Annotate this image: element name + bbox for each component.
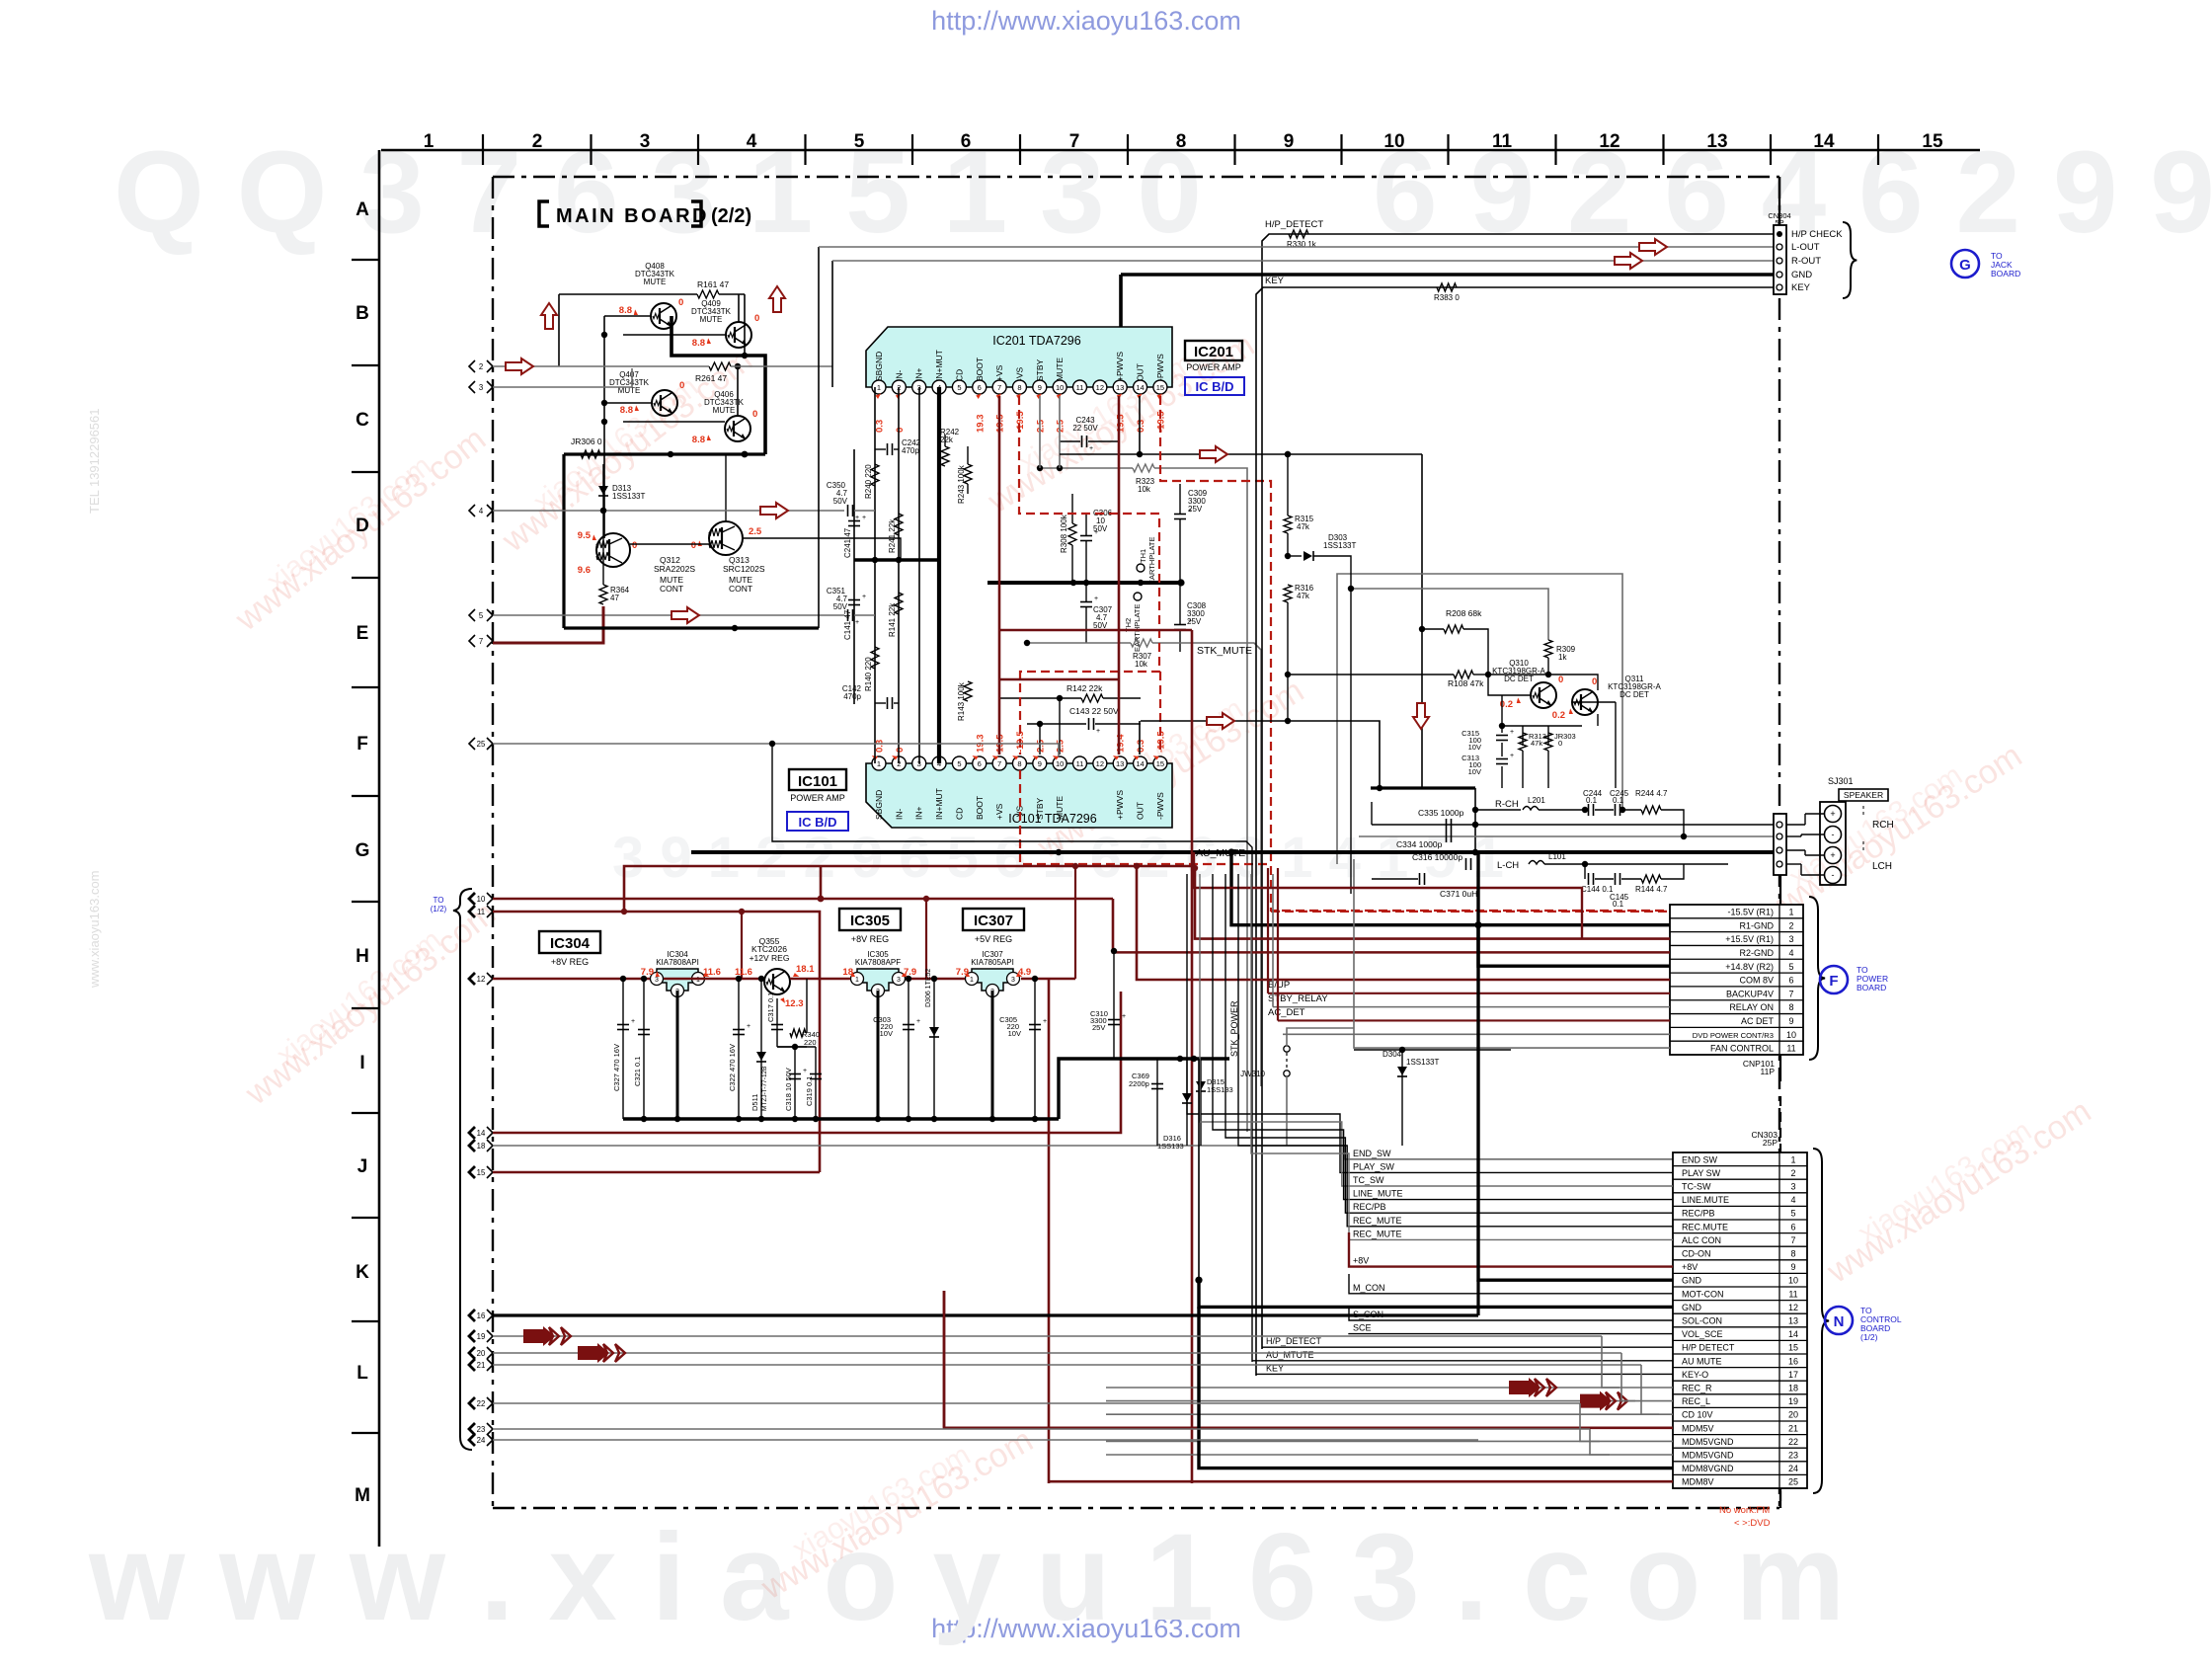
svg-text:M_CON: M_CON — [1353, 1283, 1385, 1293]
svg-text:13: 13 — [1788, 1316, 1798, 1326]
wire RELAY ON row8 — [1273, 1006, 1670, 1008]
svg-text:5: 5 — [854, 131, 865, 152]
resistor R383 0 — [1434, 283, 1460, 302]
svg-text:D511: D511 — [750, 1094, 759, 1111]
svg-text:MDM5V: MDM5V — [1682, 1423, 1714, 1433]
svg-text:15: 15 — [1922, 131, 1943, 152]
capacitor C308 3300 25V — [1174, 583, 1207, 652]
connector <3> + wire — [469, 381, 475, 393]
svg-text:1: 1 — [877, 383, 881, 392]
svg-text:C: C — [355, 410, 369, 431]
svg-text:KEY: KEY — [1791, 282, 1811, 293]
svg-text:1: 1 — [1790, 1154, 1795, 1164]
svg-text:http://www.xiaoyu163.com: http://www.xiaoyu163.com — [931, 6, 1241, 36]
svg-text:C317 0.1: C317 0.1 — [766, 993, 775, 1022]
label box IC305 — [839, 909, 901, 944]
svg-text:+VS: +VS — [994, 364, 1004, 381]
connector <25> + wire — [469, 738, 475, 750]
op-amp IC101 TDA7296 block — [866, 756, 1172, 828]
svg-text:4: 4 — [1790, 1195, 1795, 1205]
connector <14> + dark red wire — [469, 1127, 475, 1139]
svg-text:IN+: IN+ — [914, 368, 924, 382]
svg-text:BACKUP4V: BACKUP4V — [1726, 989, 1774, 998]
svg-text:(1/2): (1/2) — [431, 905, 447, 913]
svg-text:IN-: IN- — [894, 809, 904, 821]
op-amp IC201 TDA7296 block — [866, 327, 1172, 394]
svg-text:0.2: 0.2 — [1552, 710, 1565, 721]
svg-text:2.5: 2.5 — [1035, 739, 1046, 753]
svg-text:8: 8 — [1176, 131, 1187, 152]
brace to jack board — [1843, 222, 1856, 298]
svg-text:7: 7 — [1790, 1235, 1795, 1245]
svg-text:R1-GND: R1-GND — [1739, 920, 1774, 930]
capacitor C303 220 10V — [873, 976, 920, 1119]
wire Q312-Q313 link — [630, 543, 709, 545]
svg-text:IC B/D: IC B/D — [1196, 379, 1234, 394]
connector <15> + dark red wire — [469, 1166, 475, 1178]
svg-text:18: 18 — [477, 1142, 486, 1151]
svg-text:10k: 10k — [1135, 660, 1148, 669]
node G circle TO JACK BOARD — [1951, 250, 2020, 278]
dark red +VS vertical IC201 pin7 — [998, 396, 1001, 679]
svg-text:AC DET: AC DET — [1741, 1016, 1775, 1026]
capacitor C143 22 50V — [1027, 706, 1141, 735]
svg-text:25: 25 — [477, 740, 486, 749]
svg-text:47k: 47k — [1531, 739, 1542, 748]
svg-text:0: 0 — [895, 428, 906, 433]
svg-text:MUTE: MUTE — [644, 278, 667, 286]
svg-text:TC_SW: TC_SW — [1353, 1175, 1384, 1185]
resistor R313 47k — [1519, 732, 1546, 788]
svg-text:REC/PB: REC/PB — [1353, 1202, 1386, 1212]
svg-text:2: 2 — [1788, 920, 1793, 930]
svg-text:DC DET: DC DET — [1619, 690, 1649, 699]
capacitor C334 1000p — [1396, 831, 1452, 849]
svg-text:0: 0 — [632, 540, 637, 551]
svg-text:CD: CD — [954, 369, 964, 381]
wire pin3 column vertical — [918, 387, 920, 763]
thick net Q409 collector — [671, 316, 765, 454]
svg-text:+VS: +VS — [994, 803, 1004, 820]
label box IC307 — [963, 909, 1024, 944]
transistor Q407 DTC343TK — [609, 370, 684, 416]
diode D511 MTZJ-T-77-12B — [750, 976, 768, 1119]
svg-text:10V: 10V — [1008, 1029, 1021, 1038]
transistor Q310 KTC3198GR-A DC DET — [1492, 659, 1563, 710]
wire upper mid horizontal to right (arrow) — [1060, 453, 1422, 455]
svg-text:2: 2 — [532, 131, 543, 152]
grid ruler top line — [381, 149, 1980, 152]
svg-text:2200p: 2200p — [1129, 1079, 1149, 1088]
svg-text:MUTE: MUTE — [700, 315, 723, 324]
grid column ticks — [482, 134, 484, 165]
dark red riser bus to IC307 output rail — [1074, 866, 1076, 979]
dark red vertical x1207 — [1191, 630, 1194, 1483]
svg-text:MTZJ-T-77-12B: MTZJ-T-77-12B — [761, 1066, 768, 1111]
svg-text:6: 6 — [961, 131, 972, 152]
svg-text:-: - — [1832, 830, 1835, 839]
svg-text:7: 7 — [1788, 989, 1793, 998]
svg-text:G: G — [1959, 257, 1971, 274]
svg-text:14: 14 — [1813, 131, 1835, 152]
svg-text:E: E — [356, 623, 369, 644]
label box IC101 — [787, 769, 848, 831]
resistor R316 47k — [1284, 584, 1314, 721]
svg-text:R161 47: R161 47 — [697, 279, 729, 289]
jumper JW310 — [1240, 1028, 1354, 1146]
svg-text:3: 3 — [655, 977, 659, 984]
capacitor C315 100 10V — [1461, 726, 1514, 752]
regulator IC307 pin2 ground — [991, 991, 994, 1119]
svg-text:AU_MTUTE: AU_MTUTE — [1266, 1350, 1314, 1360]
dark red +PWVS vertical pin13 both ICs — [1118, 396, 1121, 755]
title MAIN BOARD — [539, 201, 751, 227]
wire COM 8V row6 from riser x1151 — [1137, 866, 1670, 980]
board border top dash-dot — [493, 176, 1779, 178]
svg-text:IC304: IC304 — [550, 935, 591, 952]
svg-text:EARTHPLATE: EARTHPLATE — [1147, 537, 1156, 586]
svg-text:0: 0 — [678, 297, 683, 308]
grid left line — [378, 150, 381, 1547]
label box IC304 — [539, 931, 600, 967]
dark red vertical pin7 IC101 — [998, 679, 1001, 755]
svg-text:REC_MUTE: REC_MUTE — [1353, 1229, 1402, 1238]
svg-text:K: K — [355, 1262, 369, 1283]
svg-text:47k: 47k — [1297, 592, 1310, 600]
svg-text:KIA7805API: KIA7805API — [971, 958, 1014, 967]
dark red horizontal y638 — [999, 629, 1192, 632]
svg-text:KIA7808API: KIA7808API — [656, 958, 699, 967]
svg-text:Q Q 3 7 6 3 1 5 1 3 0: Q Q 3 7 6 3 1 5 1 3 0 — [114, 127, 1202, 258]
svg-text:JR306 0: JR306 0 — [571, 437, 602, 446]
svg-text:11P: 11P — [1761, 1067, 1776, 1076]
svg-text:H/P_DETECT: H/P_DETECT — [1266, 1336, 1322, 1346]
svg-text:IN+MUT: IN+MUT — [934, 788, 944, 820]
diode D304 1SS133T — [1354, 1047, 1511, 1146]
junction mid bus — [854, 558, 939, 561]
resistor R364 47 — [599, 508, 630, 604]
wire GND thick — [1121, 273, 1774, 277]
svg-text:8.8: 8.8 — [619, 305, 632, 316]
svg-text:6: 6 — [1788, 976, 1793, 986]
svg-text:220: 220 — [804, 1038, 817, 1047]
wire pin2 column vertical — [898, 387, 900, 763]
svg-text:15: 15 — [1156, 759, 1164, 768]
svg-text:20: 20 — [1788, 1410, 1798, 1420]
connector <21> + wire — [469, 1359, 475, 1371]
svg-text:F: F — [356, 734, 368, 755]
svg-text:25V: 25V — [1092, 1023, 1105, 1032]
svg-text:LINE_MUTE: LINE_MUTE — [1353, 1189, 1403, 1199]
svg-text:KIA7808APF: KIA7808APF — [855, 958, 901, 967]
wire MDM5VGND row22 — [1106, 1440, 1673, 1442]
svg-text:REC_MUTE: REC_MUTE — [1353, 1216, 1402, 1226]
svg-text:AU_MUTE: AU_MUTE — [1196, 847, 1245, 859]
wire MDM5V row21 dark red — [944, 1291, 1673, 1428]
svg-text:9: 9 — [1284, 131, 1295, 152]
svg-text:IC201 TDA7296: IC201 TDA7296 — [992, 334, 1080, 348]
wire speaker row1 thin — [1372, 824, 1774, 826]
wire REC_R row18 with arrows — [1106, 1387, 1673, 1389]
svg-text:3: 3 — [1788, 934, 1793, 944]
svg-text:9: 9 — [1038, 759, 1042, 768]
wire thick row E — [564, 626, 819, 629]
svg-text:R383 0: R383 0 — [1434, 293, 1460, 302]
wire FAN CONTROL row11 — [1354, 1028, 1670, 1048]
svg-text:22: 22 — [477, 1399, 486, 1408]
svg-text:+: + — [1122, 1013, 1126, 1020]
svg-text:+PWVS: +PWVS — [1115, 790, 1125, 820]
svg-text:(1/2): (1/2) — [1860, 1332, 1878, 1342]
svg-text:0: 0 — [754, 313, 759, 324]
svg-text:12: 12 — [1599, 131, 1619, 152]
svg-text:14: 14 — [1136, 383, 1144, 392]
wire -15.5V dashed row1 — [1271, 911, 1670, 913]
svg-text:13: 13 — [1116, 759, 1124, 768]
wire pin10 rise IC101 — [1059, 698, 1061, 755]
svg-text:I: I — [359, 1053, 364, 1073]
svg-text:R140 220: R140 220 — [864, 657, 873, 691]
wire GND row10 thick from x1497 riser — [1478, 852, 1673, 1280]
connector <24> + wire — [469, 1434, 475, 1446]
svg-text:-19.5: -19.5 — [1015, 411, 1026, 433]
svg-text:POWER AMP: POWER AMP — [1186, 362, 1241, 372]
svg-text:ALC CON: ALC CON — [1682, 1235, 1721, 1245]
red dashed -VS path IC201 to IC101 — [1019, 396, 1159, 755]
svg-text:24: 24 — [1788, 1464, 1798, 1473]
svg-text:(2/2): (2/2) — [711, 205, 751, 227]
capacitor C313 100 10V — [1461, 743, 1514, 788]
dark red riser IC304-out to <11> rail — [741, 912, 743, 979]
svg-text:+: + — [1096, 728, 1100, 735]
svg-text:C322 470 16V: C322 470 16V — [728, 1044, 737, 1091]
regulator IC304 pin2 ground — [676, 991, 679, 1119]
thick net JR306 row — [564, 452, 765, 455]
svg-text:0: 0 — [1558, 739, 1562, 748]
svg-text:2.5: 2.5 — [749, 526, 762, 537]
svg-text:SRC1202S: SRC1202S — [723, 564, 765, 574]
svg-text:0: 0 — [1592, 676, 1597, 687]
svg-text:0: 0 — [679, 380, 684, 391]
svg-text:10V: 10V — [880, 1029, 893, 1038]
svg-text:3: 3 — [897, 977, 901, 984]
svg-text:+: + — [1043, 1018, 1047, 1025]
wire R2-GND row4 from <10> riser x1127 — [1113, 899, 1670, 952]
red arrow down x1439 — [1413, 703, 1429, 729]
svg-text:10k: 10k — [1138, 485, 1151, 494]
resistor R261 47 — [695, 362, 731, 383]
svg-text:10: 10 — [1788, 1276, 1798, 1286]
connector <2> + wire — [469, 360, 475, 372]
svg-text:50V: 50V — [1093, 621, 1108, 630]
svg-text:8.8: 8.8 — [692, 435, 705, 445]
svg-text:IC B/D: IC B/D — [799, 815, 837, 830]
wire CN303 bottom stub — [1779, 1488, 1781, 1508]
node F circle TO POWER BOARD — [1820, 965, 1888, 993]
svg-text:C371 0uH: C371 0uH — [1440, 889, 1477, 899]
capacitor C309 3300 25V — [1174, 484, 1208, 583]
svg-text:F: F — [1829, 973, 1838, 990]
svg-text:2.5: 2.5 — [1056, 739, 1066, 753]
svg-text:PLAY_SW: PLAY_SW — [1353, 1161, 1394, 1171]
capacitor C142 470p — [842, 684, 899, 709]
svg-text:19.3: 19.3 — [975, 415, 986, 434]
svg-text:DC DET: DC DET — [1504, 675, 1534, 683]
red dashed -PWVS path to power table — [1160, 396, 1669, 911]
capacitor C319 0.1 — [777, 1047, 822, 1119]
svg-text:VOL_SCE: VOL_SCE — [1682, 1329, 1723, 1339]
svg-text:15: 15 — [1788, 1343, 1798, 1353]
svg-text:10: 10 — [1383, 131, 1404, 152]
svg-text:9: 9 — [1790, 1262, 1795, 1272]
svg-text:R144 4.7: R144 4.7 — [1635, 885, 1668, 894]
wire MDM8VGND row24 thick — [1199, 1307, 1673, 1468]
svg-text:KEY-O: KEY-O — [1682, 1370, 1708, 1380]
svg-text:11: 11 — [1786, 1044, 1795, 1054]
svg-text:47: 47 — [610, 594, 619, 602]
wire speaker row2 gray — [1359, 835, 1774, 837]
svg-text:0.3: 0.3 — [875, 740, 886, 753]
regulator IC305 pin2 ground — [877, 991, 880, 1119]
svg-text:12: 12 — [477, 975, 486, 984]
svg-text:6: 6 — [978, 759, 982, 768]
svg-text:AC_DET: AC_DET — [1268, 1007, 1305, 1018]
resistor R308 100k — [1060, 494, 1076, 583]
board border left dash-dot — [492, 177, 494, 1508]
svg-text:SOL-CON: SOL-CON — [1682, 1316, 1722, 1326]
svg-text:L201: L201 — [1528, 796, 1545, 805]
wire y596 D303 to R309 — [1351, 589, 1548, 640]
vertical riser bundle into rows2-7 — [1187, 874, 1673, 1172]
svg-text:SRA2202S: SRA2202S — [654, 564, 695, 574]
connector <12> + dark red wire through regulators — [469, 973, 475, 985]
connector <5> + wire + C351 — [469, 609, 475, 621]
svg-text:-15.5V (R1): -15.5V (R1) — [1727, 908, 1774, 917]
svg-text:POWER AMP: POWER AMP — [790, 793, 845, 803]
svg-text:25V: 25V — [1187, 617, 1202, 626]
svg-text:14: 14 — [477, 1129, 486, 1138]
svg-text:19: 19 — [477, 1332, 486, 1341]
svg-text:15: 15 — [477, 1168, 486, 1177]
svg-text:6: 6 — [978, 383, 982, 392]
connector <19> + wire with arrow — [469, 1330, 475, 1342]
svg-text:R240 220: R240 220 — [864, 464, 873, 499]
svg-text:14: 14 — [1788, 1329, 1798, 1339]
svg-text:11.6: 11.6 — [703, 967, 721, 978]
svg-text:1: 1 — [970, 977, 974, 984]
svg-text:R244 4.7: R244 4.7 — [1635, 789, 1668, 798]
connector <23> + wire — [469, 1423, 475, 1435]
svg-text:-PWVS: -PWVS — [1155, 792, 1165, 820]
svg-text:< >:DVD: < >:DVD — [1734, 1518, 1771, 1529]
svg-text:+8V: +8V — [1353, 1256, 1369, 1266]
svg-text:RELAY ON: RELAY ON — [1729, 1002, 1774, 1012]
svg-text:18.1: 18.1 — [796, 964, 815, 975]
svg-text:2: 2 — [479, 362, 483, 371]
brace F — [1809, 897, 1825, 1060]
svg-text:REC_R: REC_R — [1682, 1384, 1712, 1393]
connector SJ301 SPEAKER — [1774, 776, 1894, 885]
IC201 pin voltage labels (red) — [875, 393, 1167, 433]
svg-text:CD-ON: CD-ON — [1682, 1249, 1711, 1259]
TH1 earthplate — [1137, 537, 1156, 586]
svg-text:+8V REG: +8V REG — [551, 957, 589, 967]
svg-text:23: 23 — [1788, 1451, 1798, 1461]
svg-text:3: 3 — [1011, 977, 1015, 984]
svg-text:MDM5VGND: MDM5VGND — [1682, 1437, 1734, 1447]
dark red riser <10> to regulator input 18V — [925, 899, 927, 979]
svg-text:IN+MUT: IN+MUT — [934, 350, 944, 381]
svg-text:TO: TO — [434, 896, 444, 905]
transistor Q409 DTC343TK — [691, 299, 759, 349]
svg-text:C327 470 16V: C327 470 16V — [612, 1044, 621, 1091]
wire R-OUT — [832, 260, 1774, 262]
svg-text:9: 9 — [1038, 383, 1042, 392]
svg-text:9: 9 — [1788, 1016, 1793, 1026]
resistor R340 220 — [777, 979, 820, 1047]
svg-text:IC305: IC305 — [850, 913, 890, 929]
svg-text:13: 13 — [1116, 383, 1124, 392]
svg-text:0: 0 — [691, 540, 696, 551]
svg-text:11: 11 — [1492, 131, 1513, 152]
svg-text:21: 21 — [1788, 1423, 1798, 1433]
svg-text:9.5: 9.5 — [578, 530, 592, 541]
svg-text:C241 47: C241 47 — [843, 527, 852, 558]
svg-text:14: 14 — [1136, 759, 1144, 768]
svg-text:19.5: 19.5 — [1116, 414, 1127, 433]
svg-text:7: 7 — [1069, 131, 1080, 152]
svg-text:+15.5V (R1): +15.5V (R1) — [1725, 934, 1774, 944]
svg-text:1SS133T: 1SS133T — [1323, 541, 1356, 550]
svg-text:1: 1 — [1788, 908, 1793, 917]
wire C241 column vertical — [853, 449, 855, 704]
svg-text:2.5: 2.5 — [1056, 419, 1066, 433]
svg-text:+: + — [631, 1018, 635, 1025]
svg-text:SBGND: SBGND — [874, 790, 884, 820]
wire BACKUP4V row7 — [1268, 993, 1670, 994]
svg-text:1SS133T: 1SS133T — [1406, 1058, 1439, 1067]
wire MDM8V row25 dark red — [1049, 1480, 1673, 1483]
svg-text:10: 10 — [1056, 759, 1064, 768]
svg-text:C318 10 50V: C318 10 50V — [784, 1068, 793, 1111]
svg-text:6: 6 — [1790, 1222, 1795, 1231]
svg-text:12: 12 — [1096, 383, 1104, 392]
svg-text:8.8: 8.8 — [692, 338, 705, 349]
svg-text:R143 100k: R143 100k — [957, 681, 966, 721]
svg-text:10: 10 — [1056, 383, 1064, 392]
svg-text:SJ301: SJ301 — [1828, 776, 1854, 786]
capacitor C318 10 50V — [784, 1044, 807, 1119]
svg-text:R2-GND: R2-GND — [1739, 948, 1774, 958]
resistor R143 100k — [957, 681, 972, 721]
capacitor C322 470 16V — [728, 976, 750, 1119]
svg-text:C321 0.1: C321 0.1 — [633, 1057, 642, 1086]
svg-text:11: 11 — [477, 908, 485, 916]
svg-text:4: 4 — [479, 507, 484, 516]
svg-text:CD: CD — [954, 808, 964, 820]
capacitor C369 2200p — [1129, 1059, 1163, 1146]
wire REC_L row19 with arrows — [1106, 1400, 1673, 1402]
wire +15.5V row3 dark red from bus riser x1210 — [1195, 868, 1670, 939]
svg-text:22k: 22k — [940, 436, 954, 444]
capacitor C141 47 — [843, 594, 866, 640]
svg-text:7: 7 — [997, 759, 1001, 768]
svg-text:L-OUT: L-OUT — [1791, 242, 1820, 253]
svg-text:-PWVS: -PWVS — [1155, 354, 1165, 381]
svg-text:7.9: 7.9 — [956, 967, 969, 978]
svg-text:w w w . x i a o y u 1 6 3 . c: w w w . x i a o y u 1 6 3 . c o m — [88, 1509, 1845, 1646]
svg-text:CD 10V: CD 10V — [1682, 1410, 1713, 1420]
